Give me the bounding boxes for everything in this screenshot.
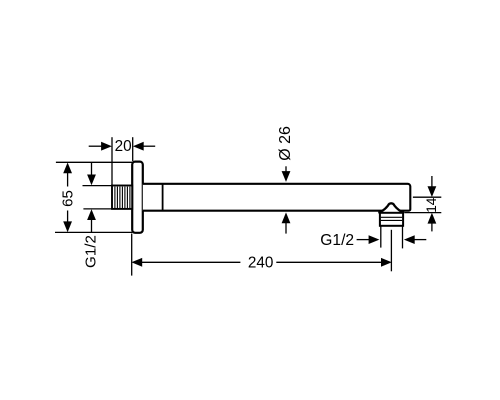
dimension Ø26: bottom arrow [282, 212, 291, 233]
dimension 65: bottom extension line [55, 231, 132, 233]
svg-text:G1/2: G1/2 [82, 235, 99, 268]
outlet thread G1/2 (horizontal hatch) [380, 213, 403, 226]
dimension 65: top extension line [56, 161, 132, 163]
dimension 14: value label (rotated) [424, 197, 439, 213]
svg-text:65: 65 [59, 190, 76, 207]
dimension Ø26: top arrow [282, 166, 291, 182]
shower arm tube [143, 184, 411, 211]
wall thread dim: top arrow [87, 163, 96, 186]
dimension Ø26: value label (rotated) [277, 126, 294, 161]
svg-text:G1/2: G1/2 [320, 232, 354, 249]
svg-text:Ø 26: Ø 26 [277, 126, 294, 161]
dimension 20: left extension line [111, 137, 113, 185]
wall thread dim: bottom extension line [83, 208, 112, 210]
dimension 65: top arrow [63, 163, 72, 187]
wall flange (escutcheon, side view) [132, 162, 143, 233]
dimension 14: top arrow [428, 176, 437, 197]
wall thread G1/2 (hatched) [112, 186, 132, 209]
dimension 20: left arrow [89, 142, 112, 151]
dimension 20: value label [115, 138, 132, 155]
svg-text:20: 20 [115, 138, 132, 155]
joint line between cone and tube [162, 183, 164, 211]
wall thread dim: top extension line [83, 185, 112, 187]
svg-text:14: 14 [424, 197, 439, 213]
svg-text:240: 240 [248, 255, 274, 272]
outlet centerline [390, 230, 392, 271]
dimension 20: right arrow [133, 142, 155, 151]
outlet dim: right extension line [402, 226, 404, 248]
dimension 14: top extension line [413, 196, 441, 198]
dimension 240: left extension line [131, 234, 133, 276]
dimension 240: left arrow [131, 258, 240, 267]
dimension 20: right extension line [132, 137, 134, 161]
dimension 240: value label [248, 255, 274, 272]
outlet dim: left arrow [357, 235, 380, 244]
wall thread dim: bottom arrow [87, 209, 96, 232]
outlet dim: left extension line [380, 226, 382, 247]
dimension 65: bottom arrow [63, 211, 72, 233]
dimension 240: right arrow [276, 258, 392, 267]
outlet dim: right arrow [404, 235, 426, 244]
dimension 14: bottom arrow [428, 213, 437, 232]
outlet dome (fill hides arm bottom line) [378, 203, 404, 213]
outlet dim: label G1/2 [320, 232, 354, 249]
dimension 65: value label (rotated) [59, 190, 76, 207]
wall thread dim: label G1/2 (rotated) [82, 235, 99, 268]
dimension 14: bottom extension line [404, 212, 441, 214]
